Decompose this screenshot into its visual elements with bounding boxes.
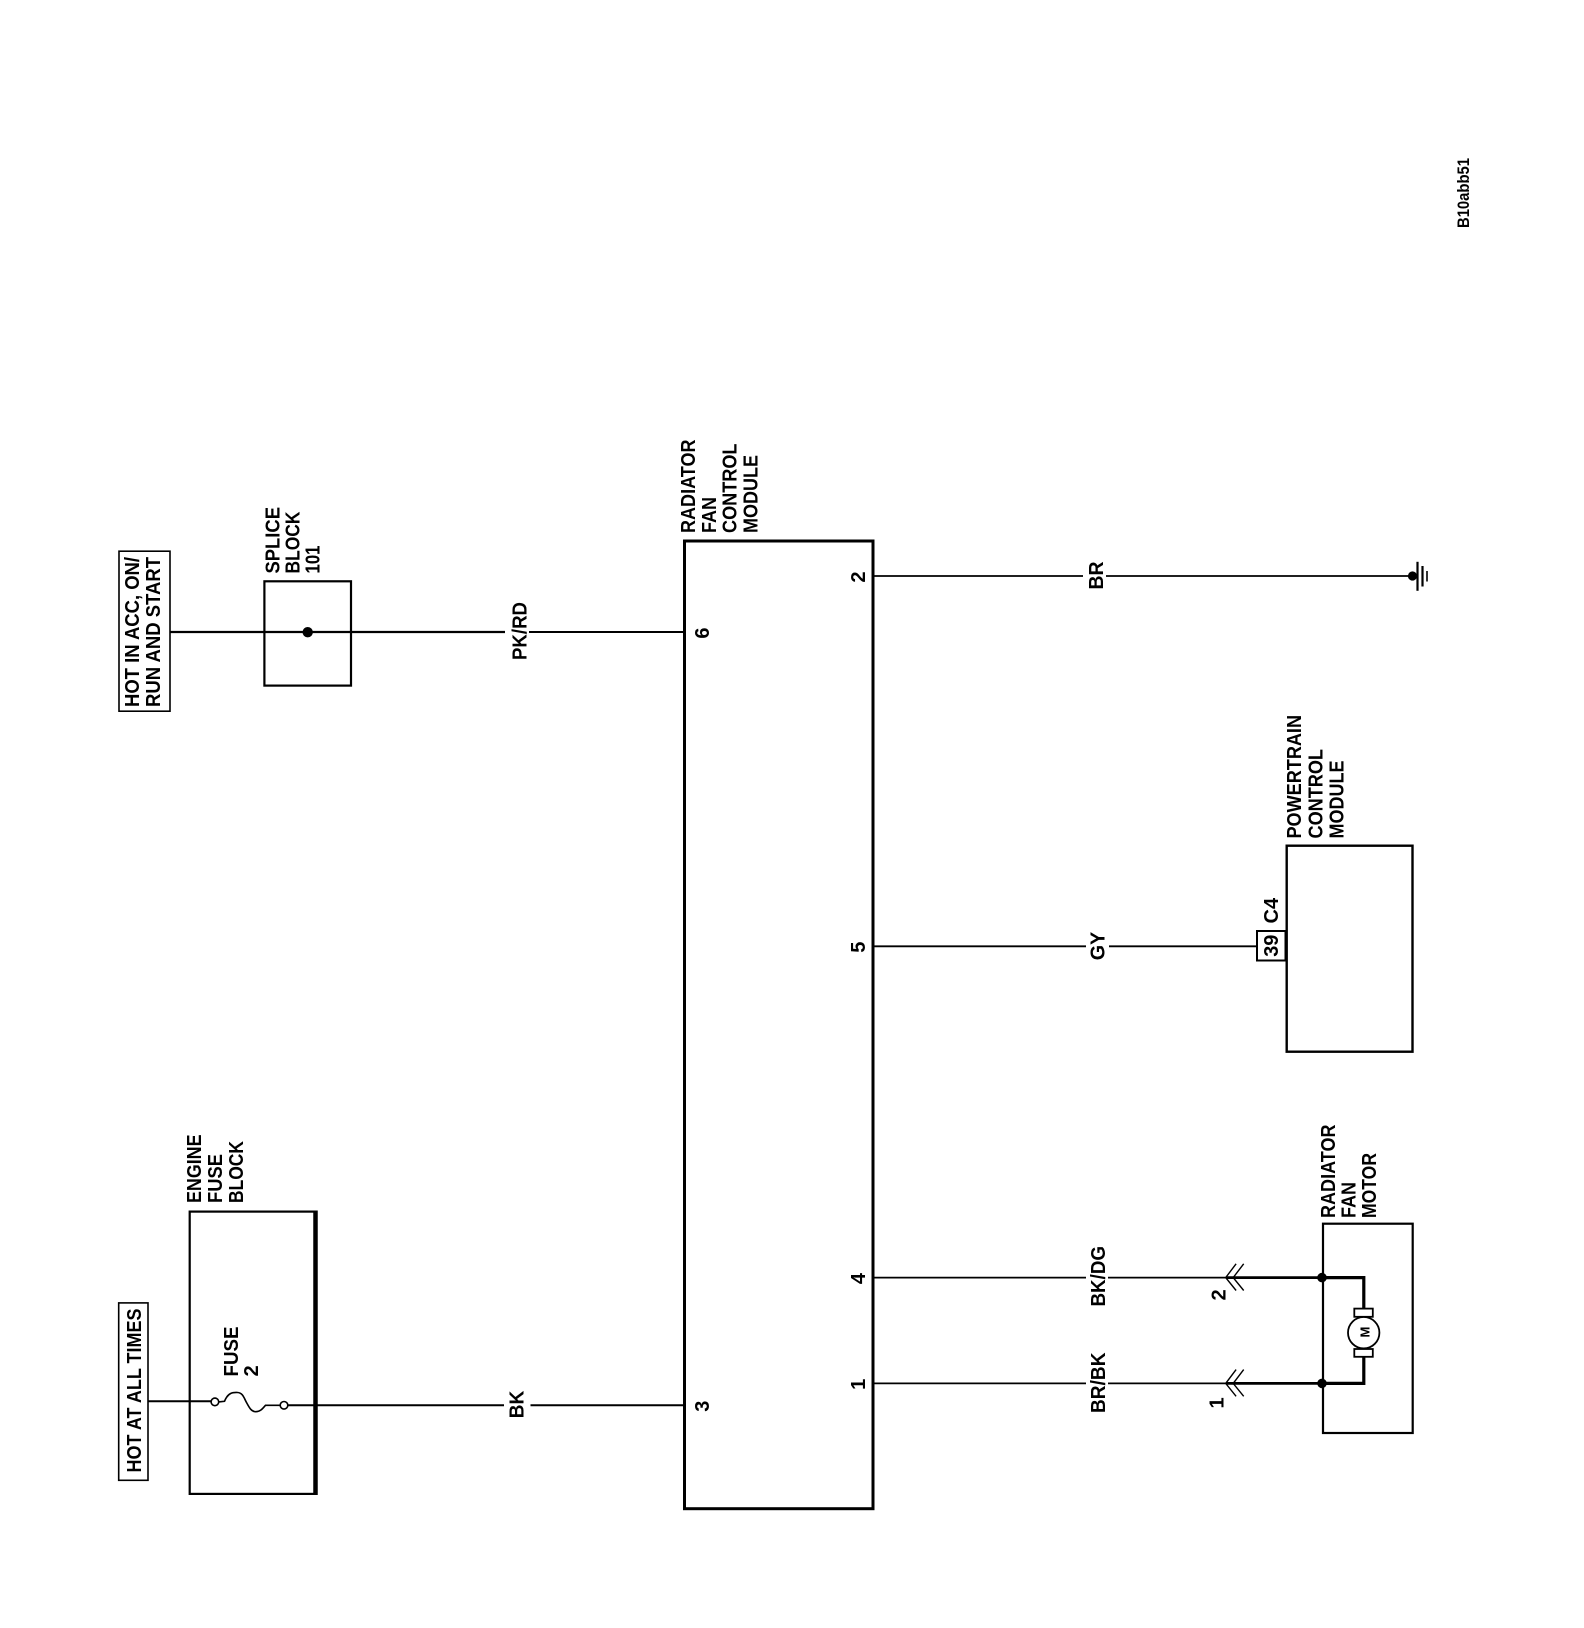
wire color label BR: [1086, 561, 1108, 590]
svg-text:RADIATOR: RADIATOR: [678, 439, 700, 533]
connector cavity label 1: [1207, 1397, 1229, 1408]
motor M1 brush terminal bottom: [1354, 1349, 1373, 1357]
wire inside motor box from pin 1 dot to motor: [1322, 1357, 1364, 1384]
power source label HOT AT ALL TIMES: [119, 1303, 148, 1480]
drawing id label B10abb51: [1454, 158, 1473, 228]
wire color label BR/BK: [1088, 1352, 1110, 1413]
pin 4: [848, 1272, 870, 1284]
wire BK: fuse to module pin 3: [288, 1404, 684, 1406]
svg-text:5: 5: [848, 942, 870, 953]
wire color label BK/DG: [1088, 1246, 1110, 1307]
svg-text:FAN: FAN: [1339, 1182, 1361, 1218]
svg-text:1: 1: [848, 1379, 870, 1390]
svg-text:FAN: FAN: [699, 497, 721, 533]
inline connector 2 chevrons on BK/DG wire: [1226, 1264, 1244, 1291]
module box RADIATOR FAN CONTROL MODULE: [685, 541, 874, 1509]
wire inside motor box from pin 2 dot to motor: [1322, 1278, 1364, 1309]
svg-text:1: 1: [1207, 1397, 1229, 1408]
svg-text:ENGINE: ENGINE: [184, 1135, 206, 1204]
svg-text:BR: BR: [1086, 561, 1108, 590]
wire BR: pin 2 to ground: [874, 575, 1409, 577]
svg-text:BLOCK: BLOCK: [283, 511, 305, 573]
connector label C4: [1261, 897, 1283, 923]
svg-text:101: 101: [303, 546, 325, 574]
svg-text:4: 4: [848, 1272, 870, 1284]
svg-text:HOT AT ALL TIMES: HOT AT ALL TIMES: [124, 1309, 146, 1473]
svg-text:PK/RD: PK/RD: [510, 602, 532, 660]
wire GY: pin 5 to PCM connector: [874, 945, 1257, 947]
svg-text:HOT IN ACC, ON/: HOT IN ACC, ON/: [122, 557, 144, 707]
svg-text:RADIATOR: RADIATOR: [1318, 1124, 1340, 1218]
fuse F2 element squiggle: [219, 1392, 281, 1411]
svg-text:MODULE: MODULE: [1327, 761, 1349, 839]
splice block 101 box: [264, 581, 351, 685]
ground junction dot: [1408, 571, 1417, 580]
pin 1: [848, 1379, 870, 1390]
module box POWERTRAIN CONTROL MODULE: [1287, 846, 1413, 1052]
label POWERTRAIN CONTROL MODULE: [1284, 715, 1349, 839]
fuse F2 right terminal circle: [280, 1402, 288, 1410]
junction dot at motor box pin 1: [1317, 1379, 1327, 1389]
fuse F2 left terminal circle: [211, 1398, 219, 1406]
svg-text:BR/BK: BR/BK: [1088, 1352, 1110, 1413]
wire from HOT AT ALL TIMES to fuse: [148, 1400, 212, 1402]
wire BK/DG: pin 4 to radiator fan motor: [874, 1277, 1322, 1279]
svg-text:MODULE: MODULE: [740, 455, 762, 533]
wire color label GY: [1088, 931, 1110, 960]
splice junction dot: [303, 627, 313, 637]
label RADIATOR FAN CONTROL MODULE: [678, 439, 762, 533]
svg-text:B10abb51: B10abb51: [1454, 158, 1473, 228]
label RADIATOR FAN MOTOR: [1318, 1124, 1381, 1218]
svg-text:6: 6: [692, 627, 714, 638]
motor box RADIATOR FAN MOTOR: [1323, 1224, 1413, 1433]
pin 6: [692, 627, 714, 638]
wire color label BK: [507, 1390, 529, 1418]
wire PK/RD: power label to splice block to module pin 6: [170, 631, 684, 633]
engine fuse block box: [190, 1211, 316, 1496]
svg-text:2: 2: [1209, 1289, 1231, 1300]
svg-text:39: 39: [1261, 935, 1283, 957]
inline connector 1 chevrons on BR/BK wire: [1226, 1370, 1244, 1397]
svg-text:RUN AND START: RUN AND START: [143, 557, 165, 707]
svg-text:SPLICE: SPLICE: [262, 507, 284, 574]
svg-text:BLOCK: BLOCK: [226, 1141, 248, 1203]
ground symbol: [1418, 562, 1428, 591]
wire color label PK/RD: [510, 602, 532, 660]
svg-text:CONTROL: CONTROL: [1306, 749, 1328, 839]
power source label HOT IN ACC, ON/ RUN AND START: [119, 551, 170, 711]
pin 5: [848, 942, 870, 953]
svg-text:FUSE: FUSE: [221, 1327, 243, 1377]
pin 3: [692, 1401, 714, 1412]
motor M1 circle: [1348, 1317, 1379, 1348]
svg-text:GY: GY: [1088, 931, 1110, 960]
svg-text:M: M: [1358, 1327, 1373, 1338]
svg-text:CONTROL: CONTROL: [720, 444, 742, 534]
svg-text:POWERTRAIN: POWERTRAIN: [1284, 715, 1306, 839]
pin 2: [848, 571, 870, 582]
svg-text:2: 2: [848, 571, 870, 582]
svg-text:FUSE: FUSE: [205, 1154, 227, 1203]
svg-text:C4: C4: [1261, 897, 1283, 923]
svg-text:BK/DG: BK/DG: [1088, 1246, 1110, 1307]
junction dot at motor box pin 2: [1317, 1273, 1327, 1283]
label ENGINE FUSE BLOCK: [184, 1135, 248, 1204]
connector pin box 39: [1257, 931, 1286, 961]
svg-text:3: 3: [692, 1401, 714, 1412]
svg-text:2: 2: [241, 1365, 263, 1376]
label SPLICE BLOCK 101: [262, 507, 324, 574]
connector cavity label 2: [1209, 1289, 1231, 1300]
motor M1 brush terminal top: [1354, 1309, 1373, 1317]
svg-text:BK: BK: [507, 1390, 529, 1418]
wire BR/BK: pin 1 to radiator fan motor: [874, 1382, 1322, 1384]
label FUSE 2: [221, 1327, 263, 1377]
svg-text:MOTOR: MOTOR: [1359, 1153, 1381, 1218]
